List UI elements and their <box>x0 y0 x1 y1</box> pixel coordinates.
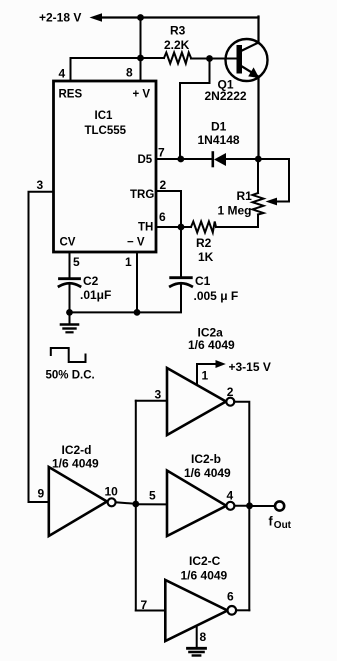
pin 8 stub <box>196 626 198 648</box>
svg-text:R3: R3 <box>170 24 186 38</box>
svg-text:1: 1 <box>202 369 209 383</box>
svg-text:C2: C2 <box>83 274 99 288</box>
svg-text:+2-18 V: +2-18 V <box>39 11 81 25</box>
wire base node down to D5 node <box>180 59 210 160</box>
wire pin7 D5 <box>156 158 212 160</box>
svg-text:10: 10 <box>105 485 119 499</box>
wire TRG <box>156 191 181 227</box>
wire bus to IC2-b input <box>136 503 167 505</box>
junction dot rail-pin1 <box>134 309 141 316</box>
wire TH node to C1 <box>180 227 182 277</box>
wire R3 to base <box>191 58 237 60</box>
svg-text:f: f <box>269 515 274 529</box>
wire pin 4 drop <box>70 58 72 81</box>
wire IC2a output to right bus <box>234 402 249 611</box>
wire IC2-d output <box>116 502 136 504</box>
arrowhead wiper <box>266 198 278 206</box>
ground under IC2-C <box>188 648 206 655</box>
svg-text:8: 8 <box>200 630 207 644</box>
svg-text:1/6 4049: 1/6 4049 <box>181 569 228 583</box>
svg-text:4: 4 <box>59 67 66 81</box>
wire pin 8 drop <box>140 18 142 82</box>
junction dot D5 node <box>177 156 184 163</box>
capacitor C1 <box>170 274 238 312</box>
ground under C2 <box>61 312 78 332</box>
svg-text:1 Meg: 1 Meg <box>218 204 252 218</box>
diode D1 <box>198 120 259 167</box>
svg-text:2: 2 <box>227 385 234 399</box>
wire pin 3 long run <box>29 192 54 502</box>
wire IC2a input <box>136 400 167 402</box>
svg-text:1/6 4049: 1/6 4049 <box>184 466 231 480</box>
transistor Q1 <box>205 17 268 160</box>
wire pin 5 drop <box>69 252 71 277</box>
wire emitter node to R1 <box>257 159 259 193</box>
svg-text:8: 8 <box>126 66 133 80</box>
svg-text:1K: 1K <box>198 250 214 264</box>
svg-text:R1: R1 <box>237 189 253 203</box>
wire R1 bottom <box>257 215 259 228</box>
svg-text:.005 μ F: .005 μ F <box>194 289 239 303</box>
svg-text:50% D.C.: 50% D.C. <box>46 370 95 382</box>
svg-text:1: 1 <box>125 255 132 269</box>
wire IC2-b output <box>235 505 250 507</box>
junction dot output node <box>246 502 253 509</box>
junction dot rail-C2 <box>66 309 73 316</box>
inverter IC2-b <box>167 452 234 536</box>
svg-text:2N2222: 2N2222 <box>205 89 247 103</box>
waveform symbol 50% duty <box>51 348 86 362</box>
svg-text:9: 9 <box>38 487 45 501</box>
svg-text:RES: RES <box>59 89 83 101</box>
svg-text:1N4148: 1N4148 <box>198 133 240 147</box>
wire IC2-C output <box>236 609 249 611</box>
output terminal circle <box>275 501 284 510</box>
svg-text:IC2-C: IC2-C <box>189 554 221 568</box>
svg-text:2: 2 <box>160 178 167 192</box>
svg-text:TLC555: TLC555 <box>85 125 127 137</box>
wire to output terminal <box>250 505 275 507</box>
wire top rail <box>99 16 259 18</box>
IC1 TLC555 <box>54 81 157 252</box>
junction dot base node <box>206 55 213 62</box>
wire ground rail <box>70 311 182 313</box>
svg-text:5: 5 <box>73 255 80 269</box>
svg-text:.01μF: .01μF <box>80 288 111 302</box>
svg-text:3: 3 <box>155 388 162 402</box>
resistor R3 <box>164 53 191 64</box>
svg-text:D5: D5 <box>138 154 153 166</box>
svg-text:IC2-d: IC2-d <box>62 443 92 457</box>
pin 1 stub and supply arrow <box>197 360 271 385</box>
svg-text:IC2-b: IC2-b <box>191 452 221 466</box>
svg-text:Out: Out <box>274 520 292 531</box>
inverter IC2a <box>155 326 236 436</box>
svg-text:− V: − V <box>127 237 145 249</box>
svg-text:6: 6 <box>227 590 234 604</box>
svg-text:6: 6 <box>159 210 166 224</box>
svg-text:+ V: + V <box>133 89 151 101</box>
svg-text:D1: D1 <box>211 120 227 134</box>
junction dot pin8/R3 <box>137 55 144 62</box>
inverter IC2-d <box>38 443 119 536</box>
svg-text:CV: CV <box>60 237 76 249</box>
junction dot emitter node <box>255 156 262 163</box>
svg-text:1/6 4049: 1/6 4049 <box>52 457 99 471</box>
svg-text:C1: C1 <box>195 274 211 288</box>
svg-text:4: 4 <box>227 489 234 503</box>
junction dot top rail <box>137 14 144 21</box>
inverter IC2-C <box>141 554 237 641</box>
svg-text:5: 5 <box>149 489 156 503</box>
svg-text:7: 7 <box>158 146 165 160</box>
wire y58 rail to R3 <box>71 57 165 59</box>
junction dot TH node <box>178 224 185 231</box>
resistor R2 <box>191 222 216 265</box>
wire wiper loop <box>258 159 289 202</box>
svg-text:3: 3 <box>37 178 44 192</box>
wire IC2-C input <box>136 610 166 612</box>
svg-text:+3-15 V: +3-15 V <box>229 360 271 374</box>
svg-text:TRG: TRG <box>130 189 154 201</box>
svg-text:IC1: IC1 <box>95 110 114 122</box>
svg-text:TH: TH <box>138 222 153 234</box>
svg-text:R2: R2 <box>196 236 212 250</box>
potentiometer R1 <box>218 189 264 218</box>
svg-text:2.2K: 2.2K <box>164 38 190 52</box>
wire input bus vertical <box>135 401 137 611</box>
capacitor C2 <box>59 274 111 312</box>
wire pin 1 drop <box>136 252 138 312</box>
wire TH line <box>156 226 191 228</box>
junction dot inverter input bus <box>132 501 139 508</box>
arrowhead left on supply wire <box>90 13 103 22</box>
svg-text:1/6 4049: 1/6 4049 <box>188 338 235 352</box>
